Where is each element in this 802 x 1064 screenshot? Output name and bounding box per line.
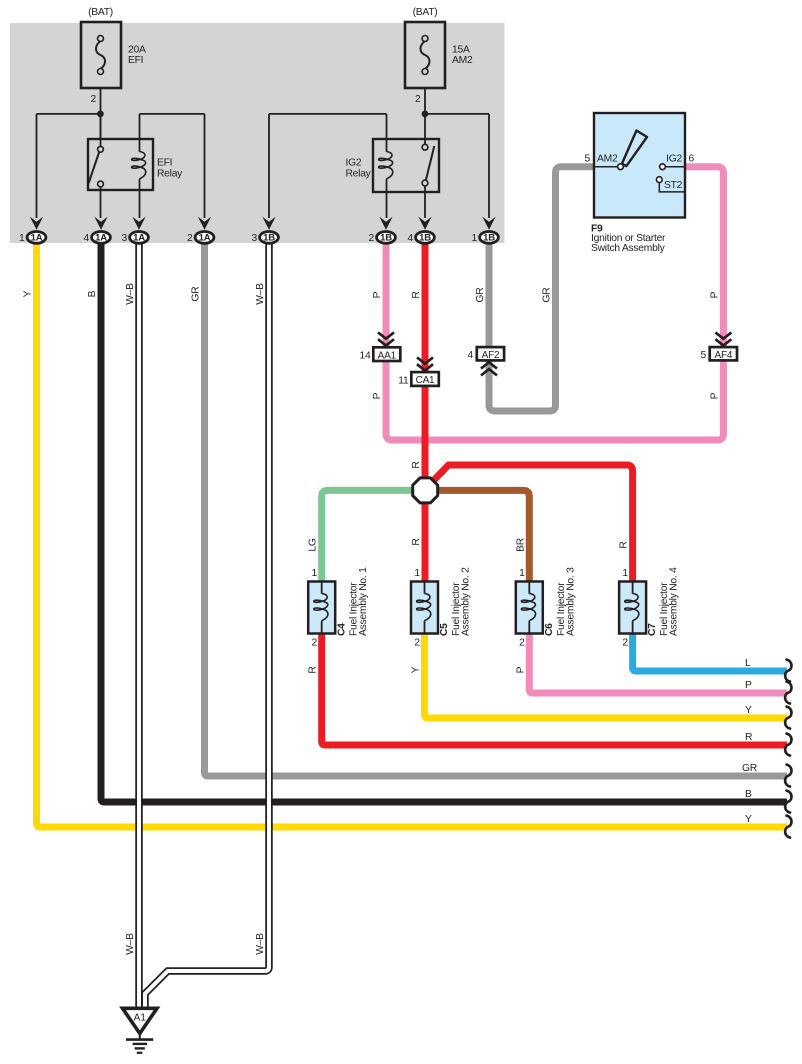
svg-text:2: 2 (622, 638, 628, 649)
svg-text:2: 2 (312, 638, 318, 649)
svg-text:1B: 1B (419, 233, 431, 244)
svg-text:BR: BR (515, 538, 526, 552)
svg-text:11: 11 (398, 376, 409, 387)
svg-text:L: L (745, 658, 751, 669)
svg-text:P: P (372, 291, 383, 298)
svg-text:4: 4 (84, 233, 90, 244)
svg-text:P: P (372, 392, 383, 399)
svg-text:4: 4 (408, 233, 414, 244)
svg-text:3: 3 (252, 233, 258, 244)
svg-text:ST2: ST2 (664, 180, 683, 191)
svg-text:C5: C5 (439, 623, 450, 636)
svg-text:1B: 1B (263, 233, 275, 244)
svg-text:Assembly No. 2: Assembly No. 2 (461, 567, 472, 636)
svg-text:GR: GR (742, 763, 757, 774)
svg-text:2: 2 (91, 94, 97, 105)
svg-text:1A: 1A (199, 233, 211, 244)
svg-text:AF4: AF4 (715, 350, 733, 361)
svg-text:B: B (745, 789, 752, 800)
svg-text:R: R (745, 732, 752, 743)
svg-text:R: R (619, 541, 630, 548)
svg-text:C6: C6 (544, 623, 555, 636)
svg-text:(BAT): (BAT) (88, 7, 113, 18)
svg-text:2: 2 (187, 233, 193, 244)
svg-text:AA1: AA1 (378, 350, 397, 361)
svg-text:6: 6 (689, 154, 695, 165)
svg-text:3: 3 (122, 233, 128, 244)
svg-text:A1: A1 (134, 1013, 147, 1024)
svg-text:Relay: Relay (157, 169, 183, 180)
svg-text:R: R (411, 538, 422, 545)
svg-text:P: P (515, 666, 526, 673)
svg-text:W–B: W–B (125, 283, 136, 305)
svg-text:GR: GR (191, 287, 202, 302)
svg-text:4: 4 (468, 350, 474, 361)
svg-text:IG2: IG2 (346, 158, 362, 169)
svg-text:IG2: IG2 (666, 154, 682, 165)
svg-text:Relay: Relay (346, 169, 372, 180)
svg-text:14: 14 (360, 351, 371, 362)
svg-text:5: 5 (585, 154, 591, 165)
svg-text:1: 1 (472, 233, 478, 244)
svg-text:B: B (87, 290, 98, 297)
svg-text:1: 1 (312, 568, 318, 579)
svg-text:R: R (411, 461, 422, 468)
svg-text:C4: C4 (336, 623, 347, 636)
svg-text:1: 1 (19, 233, 25, 244)
svg-text:20A: 20A (128, 45, 146, 56)
svg-text:15A: 15A (452, 45, 470, 56)
svg-text:P: P (709, 291, 720, 298)
svg-text:EFI: EFI (128, 55, 143, 66)
svg-text:Assembly No. 1: Assembly No. 1 (358, 567, 369, 636)
svg-text:Assembly No. 3: Assembly No. 3 (565, 567, 576, 636)
svg-text:Y: Y (745, 814, 752, 825)
svg-text:1A: 1A (31, 233, 43, 244)
svg-text:Y: Y (23, 290, 34, 297)
svg-text:R: R (411, 291, 422, 298)
svg-text:1A: 1A (133, 233, 145, 244)
svg-text:C7: C7 (647, 623, 658, 636)
svg-text:1: 1 (622, 568, 628, 579)
svg-text:Assembly No. 4: Assembly No. 4 (669, 567, 680, 636)
svg-text:Y: Y (745, 705, 752, 716)
svg-text:W–B: W–B (125, 933, 136, 955)
svg-text:EFI: EFI (157, 158, 172, 169)
svg-text:W–B: W–B (255, 283, 266, 305)
svg-text:P: P (745, 680, 752, 691)
svg-text:Y: Y (411, 666, 422, 673)
svg-text:AF2: AF2 (482, 350, 500, 361)
svg-text:2: 2 (519, 638, 525, 649)
svg-text:1B: 1B (483, 233, 495, 244)
svg-text:LG: LG (308, 538, 319, 551)
svg-text:1: 1 (519, 568, 525, 579)
svg-text:Switch Assembly: Switch Assembly (591, 243, 666, 254)
svg-text:2: 2 (415, 94, 421, 105)
svg-text:P: P (709, 392, 720, 399)
svg-text:AM2: AM2 (452, 55, 473, 66)
svg-text:CA1: CA1 (416, 375, 435, 386)
svg-text:2: 2 (414, 638, 420, 649)
svg-text:AM2: AM2 (597, 154, 618, 165)
svg-text:R: R (308, 666, 319, 673)
svg-text:1B: 1B (380, 233, 392, 244)
svg-text:1A: 1A (95, 233, 107, 244)
svg-text:W–B: W–B (255, 933, 266, 955)
svg-text:5: 5 (701, 350, 707, 361)
svg-text:1: 1 (414, 568, 420, 579)
svg-text:(BAT): (BAT) (413, 7, 438, 18)
svg-text:GR: GR (542, 288, 553, 303)
svg-text:2: 2 (369, 233, 375, 244)
svg-text:GR: GR (475, 288, 486, 303)
